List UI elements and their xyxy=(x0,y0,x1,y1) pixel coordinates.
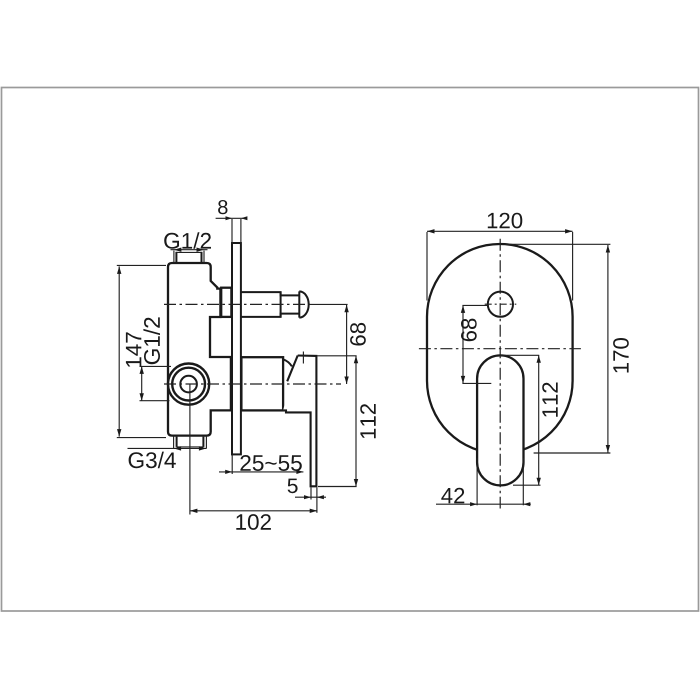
dimension G3/4 xyxy=(128,446,207,468)
G3/4 side inlet circles xyxy=(168,364,209,405)
border frame xyxy=(2,88,699,612)
valve body xyxy=(168,263,231,436)
dimension 120 xyxy=(427,213,573,301)
shower outlet pipe xyxy=(241,292,299,317)
dimension 68 right view xyxy=(461,305,492,383)
vertical centerline right view xyxy=(499,239,501,509)
dimension 42 xyxy=(436,458,531,506)
pipe end cap xyxy=(299,291,308,317)
dimension 68 left view xyxy=(309,304,366,384)
dimension 112 right view xyxy=(501,355,558,485)
horizontal centerline right view xyxy=(419,348,581,350)
dimension G1/2 top xyxy=(164,232,211,252)
wall plate xyxy=(232,243,241,454)
dimension 170 xyxy=(506,244,629,453)
oval wall plate xyxy=(427,244,573,453)
handle lever xyxy=(283,356,316,487)
dimension 8 (plate thickness) xyxy=(216,200,248,243)
dimension 25~55 xyxy=(219,352,303,475)
cartridge cylinder xyxy=(241,357,283,410)
dimension 5 xyxy=(288,479,326,513)
G3/4 bottom port xyxy=(174,436,207,449)
dimension 112 left view xyxy=(318,356,376,487)
knob horizontal centerline xyxy=(485,303,517,305)
diverter knob circle xyxy=(488,292,513,317)
G1/2 top port xyxy=(174,251,204,263)
handle stadium xyxy=(477,355,523,485)
dimension 102 xyxy=(190,384,317,530)
flange on outlet pipe xyxy=(221,288,231,317)
centerline lower axis xyxy=(164,383,341,385)
dimension G1/2 side xyxy=(140,317,172,400)
centerline upper axis xyxy=(164,303,310,305)
dimension 147 xyxy=(117,265,166,437)
